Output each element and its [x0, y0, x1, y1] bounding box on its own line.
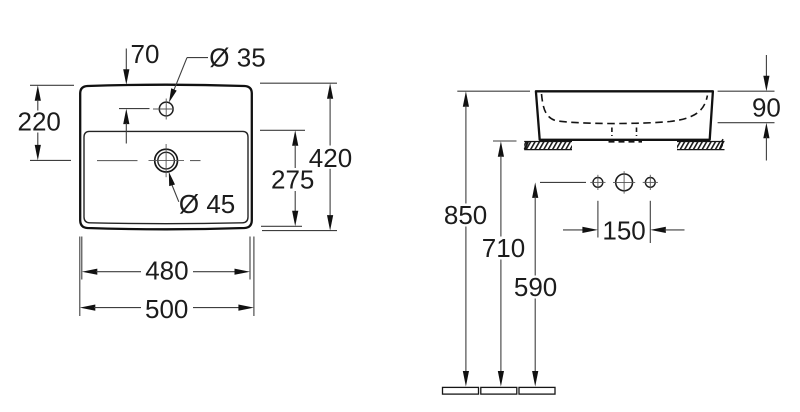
svg-text:500: 500	[145, 294, 188, 324]
tap hole middle (side view)	[613, 171, 635, 193]
svg-text:70: 70	[131, 39, 160, 69]
dimension 275 (basin inner depth)	[260, 130, 314, 226]
countertop hatched band left	[524, 142, 572, 150]
dimension 70 (tap hole offset)	[119, 39, 159, 144]
faucet hole O35 (top view)	[153, 99, 174, 120]
dimension 220 (left side)	[18, 85, 74, 160]
floor tile strip 3	[519, 387, 555, 394]
dimension 90 (basin height)	[718, 55, 781, 161]
label O45 with leader	[169, 172, 235, 219]
svg-text:710: 710	[482, 233, 525, 263]
countertop hatched band right	[677, 139, 725, 149]
drain centreline dashes	[97, 160, 201, 162]
basin outer outline (top view)	[80, 85, 252, 230]
drain outline dashes (side view)	[609, 128, 643, 142]
svg-text:150: 150	[602, 216, 645, 246]
svg-text:275: 275	[271, 165, 314, 195]
svg-text:420: 420	[309, 143, 352, 173]
tap hole left (side view)	[590, 175, 605, 190]
svg-text:90: 90	[752, 93, 781, 123]
basin inner profile (dashed, side view)	[542, 94, 708, 124]
svg-text:850: 850	[444, 200, 487, 230]
floor tile strip 2	[481, 387, 517, 394]
dimension 500 (overall width)	[80, 237, 254, 325]
dimension 150 (tap hole spacing)	[563, 201, 685, 246]
basin inner rim (top view)	[84, 131, 248, 223]
dimension 710 (countertop height)	[482, 141, 525, 387]
svg-text:590: 590	[514, 272, 557, 302]
dimension 590 (tap hole height)	[514, 182, 586, 386]
svg-text:Ø 35: Ø 35	[209, 42, 265, 72]
dimension 480 (inner width)	[82, 237, 250, 286]
floor tile strip 1	[443, 387, 479, 394]
basin outline (side view)	[536, 91, 713, 140]
svg-text:480: 480	[145, 256, 188, 286]
tap hole right (side view)	[643, 175, 658, 190]
drain hole O45 (top view)	[149, 144, 185, 177]
dimension 850 (rim height above floor)	[444, 91, 530, 386]
svg-text:220: 220	[18, 107, 61, 137]
label O35 with leader	[169, 42, 266, 102]
svg-text:Ø 45: Ø 45	[179, 189, 235, 219]
dimension 420 (overall depth)	[260, 83, 352, 230]
